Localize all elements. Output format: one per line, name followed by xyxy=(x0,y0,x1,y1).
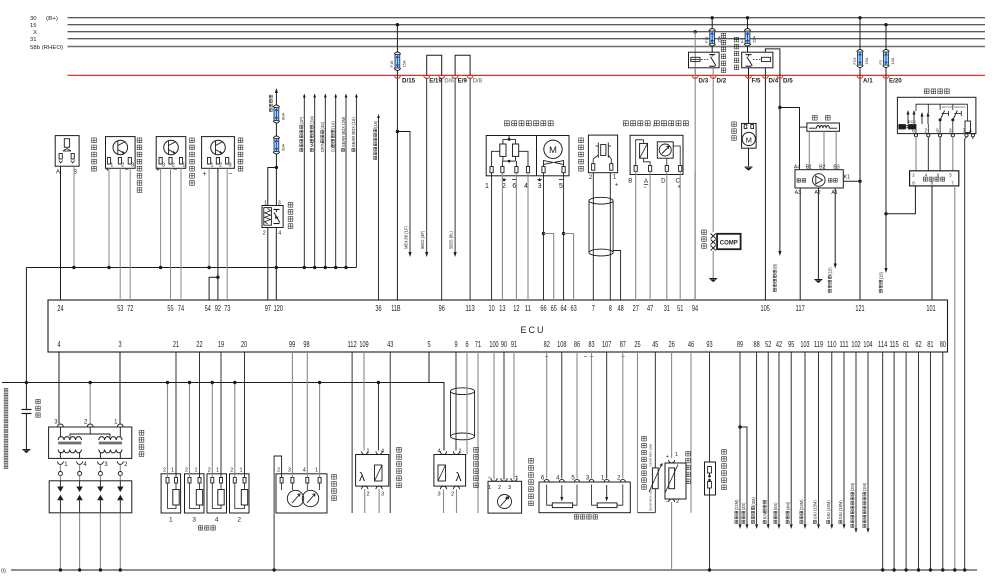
svg-text:1: 1 xyxy=(216,468,219,474)
svg-text:105: 105 xyxy=(761,303,770,313)
svg-text:−: − xyxy=(173,167,177,174)
svg-text:15A: 15A xyxy=(716,36,721,43)
svg-text:1: 1 xyxy=(195,468,198,474)
svg-text:121: 121 xyxy=(855,303,864,313)
svg-text:+: + xyxy=(615,183,619,189)
svg-text:GIU (15M): GIU (15M) xyxy=(813,500,818,520)
svg-text:5: 5 xyxy=(427,339,430,349)
svg-text:2: 2 xyxy=(237,517,241,524)
svg-text:62: 62 xyxy=(915,339,921,349)
svg-text:25: 25 xyxy=(634,339,640,349)
svg-text:9: 9 xyxy=(454,339,457,349)
svg-text:4: 4 xyxy=(524,183,528,190)
svg-text:(B): (B) xyxy=(773,263,778,269)
svg-text:4: 4 xyxy=(381,449,384,455)
svg-text:M: M xyxy=(549,145,557,156)
svg-text:99: 99 xyxy=(289,339,295,349)
svg-text:30: 30 xyxy=(30,16,37,22)
svg-text:3: 3 xyxy=(118,339,121,349)
svg-text:22: 22 xyxy=(196,339,202,349)
svg-text:103: 103 xyxy=(800,339,809,349)
svg-text:A/1: A/1 xyxy=(863,78,873,85)
svg-text:4: 4 xyxy=(437,449,440,455)
svg-text:89: 89 xyxy=(737,339,743,349)
svg-text:4: 4 xyxy=(215,517,219,524)
svg-text:1: 1 xyxy=(315,468,318,474)
svg-text:(6S): (6S) xyxy=(773,502,778,510)
svg-text:15A: 15A xyxy=(752,36,757,43)
svg-text:+: + xyxy=(202,171,206,178)
svg-text:3: 3 xyxy=(437,492,440,498)
svg-text:A: A xyxy=(56,170,60,176)
svg-text:15A: 15A xyxy=(402,60,407,67)
svg-text:19: 19 xyxy=(218,339,224,349)
svg-text:92: 92 xyxy=(215,303,221,313)
svg-text:7: 7 xyxy=(592,303,595,313)
svg-text:114: 114 xyxy=(878,339,887,349)
svg-text:(4M): (4M) xyxy=(785,501,790,510)
svg-text:3: 3 xyxy=(192,517,196,524)
svg-text:5: 5 xyxy=(936,128,939,134)
svg-text:2: 2 xyxy=(263,231,266,237)
svg-text:D/2: D/2 xyxy=(717,78,727,85)
svg-text:3: 3 xyxy=(162,163,165,169)
svg-text:D/4: D/4 xyxy=(769,78,779,85)
svg-text:1: 1 xyxy=(458,449,461,455)
svg-text:82: 82 xyxy=(544,339,550,349)
svg-text:(15): (15) xyxy=(828,267,833,275)
svg-text:3: 3 xyxy=(381,492,384,498)
svg-text:91: 91 xyxy=(511,339,517,349)
svg-text:1: 1 xyxy=(264,200,267,206)
svg-text:−: − xyxy=(643,185,647,191)
svg-text:F/5: F/5 xyxy=(752,78,761,85)
svg-text:104: 104 xyxy=(863,339,872,349)
svg-text:λ: λ xyxy=(359,470,365,484)
svg-text:P/N: P/N xyxy=(762,513,767,520)
svg-text:81: 81 xyxy=(927,339,933,349)
svg-text:E/9: E/9 xyxy=(458,78,468,85)
svg-text:2: 2 xyxy=(277,468,280,474)
svg-text:GIU (18M): GIU (18M) xyxy=(838,500,843,520)
svg-text:31: 31 xyxy=(664,303,670,313)
svg-text:30A: 30A xyxy=(281,144,286,151)
svg-text:COMP: COMP xyxy=(720,241,738,247)
svg-text:98: 98 xyxy=(303,339,309,349)
svg-text:13: 13 xyxy=(499,303,505,313)
svg-text:87: 87 xyxy=(620,339,626,349)
svg-text:(15): (15) xyxy=(373,120,378,128)
svg-text:D/6: D/6 xyxy=(444,78,454,85)
svg-text:F4: F4 xyxy=(739,38,744,43)
svg-text:D/5: D/5 xyxy=(783,78,793,85)
svg-text:1: 1 xyxy=(169,517,173,524)
svg-text:DP/N: DP/N xyxy=(320,142,325,152)
svg-text:27: 27 xyxy=(633,303,639,313)
svg-text:D: D xyxy=(661,178,666,185)
svg-text:8: 8 xyxy=(609,303,612,313)
svg-text:108: 108 xyxy=(557,339,566,349)
svg-text:B1: B1 xyxy=(806,164,812,170)
svg-text:B2: B2 xyxy=(819,164,825,170)
svg-text:1: 1 xyxy=(182,163,185,169)
svg-text:26: 26 xyxy=(669,339,675,349)
svg-text:1: 1 xyxy=(485,183,489,190)
svg-text:113: 113 xyxy=(465,303,474,313)
svg-text:86: 86 xyxy=(574,339,580,349)
svg-text:43: 43 xyxy=(387,339,393,349)
svg-text:83: 83 xyxy=(588,339,594,349)
svg-text:3: 3 xyxy=(538,183,542,190)
svg-text:45: 45 xyxy=(652,339,658,349)
svg-text:42: 42 xyxy=(776,339,782,349)
svg-text:1: 1 xyxy=(210,163,213,169)
svg-text:GEAR BOX (2S): GEAR BOX (2S) xyxy=(649,489,653,511)
svg-text:(1M): (1M) xyxy=(862,482,867,491)
svg-text:93: 93 xyxy=(706,339,712,349)
svg-text:D/3: D/3 xyxy=(699,78,709,85)
svg-text:55: 55 xyxy=(167,303,173,313)
svg-text:3: 3 xyxy=(228,163,231,169)
svg-text:1: 1 xyxy=(240,468,243,474)
svg-text:109: 109 xyxy=(359,339,368,349)
svg-text:2: 2 xyxy=(676,499,679,505)
svg-text:10A: 10A xyxy=(890,57,895,64)
svg-text:4: 4 xyxy=(303,468,306,474)
svg-text:5B22 (4F): 5B22 (4F) xyxy=(420,230,425,249)
svg-text:7: 7 xyxy=(963,128,966,134)
svg-text:6: 6 xyxy=(465,339,468,349)
svg-text:2: 2 xyxy=(208,468,211,474)
svg-text:M: M xyxy=(746,136,752,145)
svg-text:E/20: E/20 xyxy=(889,78,902,85)
svg-text:3: 3 xyxy=(278,200,281,206)
svg-text:72: 72 xyxy=(127,303,133,313)
svg-text:2: 2 xyxy=(366,492,369,498)
svg-text:X: X xyxy=(33,30,37,36)
svg-text:52: 52 xyxy=(765,339,771,349)
svg-text:74: 74 xyxy=(178,303,184,313)
svg-text:15: 15 xyxy=(30,23,37,29)
svg-text:+: + xyxy=(156,167,160,174)
svg-text:1: 1 xyxy=(366,449,369,455)
svg-text:73: 73 xyxy=(224,303,230,313)
svg-text:112: 112 xyxy=(347,339,356,349)
svg-text:−: − xyxy=(584,354,588,361)
svg-text:(23M): (23M) xyxy=(799,499,804,510)
svg-text:61: 61 xyxy=(903,339,909,349)
svg-text:−: − xyxy=(125,167,129,174)
svg-text:(22M): (22M) xyxy=(734,499,739,510)
svg-text:RES/ACC: RES/ACC xyxy=(954,105,966,109)
svg-text:117: 117 xyxy=(796,303,805,313)
svg-text:94: 94 xyxy=(692,303,698,313)
svg-text:(B+): (B+) xyxy=(46,16,58,22)
svg-text:63: 63 xyxy=(571,303,577,313)
svg-text:2: 2 xyxy=(185,468,188,474)
svg-text:10: 10 xyxy=(489,303,495,313)
svg-text:6: 6 xyxy=(912,128,915,134)
svg-text:GEAR BOX (6M): GEAR BOX (6M) xyxy=(649,444,653,467)
svg-text:1: 1 xyxy=(171,468,174,474)
svg-text:46: 46 xyxy=(688,339,694,349)
svg-text:51: 51 xyxy=(677,303,683,313)
svg-text:3: 3 xyxy=(949,128,952,134)
svg-text:−: − xyxy=(488,475,492,481)
svg-text:E/19: E/19 xyxy=(429,78,442,85)
svg-text:B: B xyxy=(628,178,632,185)
svg-text:2: 2 xyxy=(924,128,927,134)
svg-text:2: 2 xyxy=(451,492,454,498)
svg-text:0): 0) xyxy=(1,568,6,574)
svg-text:GEAR BOX (1S): GEAR BOX (1S) xyxy=(351,117,356,148)
svg-text:F11: F11 xyxy=(704,36,709,43)
svg-text:21: 21 xyxy=(173,339,179,349)
svg-text:64: 64 xyxy=(561,303,567,313)
svg-text:6: 6 xyxy=(512,183,516,190)
svg-text:1: 1 xyxy=(675,452,678,458)
svg-text:GIU (16M): GIU (16M) xyxy=(826,500,831,520)
svg-text:(3M): (3M) xyxy=(751,497,756,506)
svg-text:100: 100 xyxy=(489,339,498,349)
svg-text:24: 24 xyxy=(57,303,63,313)
svg-text:97: 97 xyxy=(265,303,271,313)
svg-text:2: 2 xyxy=(498,485,501,491)
svg-text:4: 4 xyxy=(57,339,60,349)
svg-text:(15): (15) xyxy=(879,271,884,279)
svg-text:12: 12 xyxy=(513,303,519,313)
svg-text:−: − xyxy=(228,171,232,178)
svg-text:5: 5 xyxy=(559,183,563,190)
svg-text:20: 20 xyxy=(241,339,247,349)
svg-text:4: 4 xyxy=(278,231,281,237)
svg-text:95: 95 xyxy=(788,339,794,349)
svg-text:47: 47 xyxy=(647,303,653,313)
svg-text:(4S): (4S) xyxy=(320,121,325,129)
svg-text:58b (RHEO): 58b (RHEO) xyxy=(30,45,63,51)
svg-text:(2M): (2M) xyxy=(850,482,855,491)
svg-text:5B25 (8L): 5B25 (8L) xyxy=(449,230,454,249)
svg-text:B3: B3 xyxy=(833,164,839,170)
svg-text:11: 11 xyxy=(525,303,531,313)
svg-text:120: 120 xyxy=(274,303,283,313)
svg-text:+: + xyxy=(666,454,669,460)
svg-text:36: 36 xyxy=(375,303,381,313)
svg-text:66: 66 xyxy=(540,303,546,313)
svg-text:31: 31 xyxy=(30,37,37,43)
svg-text:3: 3 xyxy=(508,485,511,491)
svg-text:ECU: ECU xyxy=(520,325,545,335)
svg-text:(2M): (2M) xyxy=(310,115,315,124)
svg-text:(3S): (3S) xyxy=(741,502,746,510)
svg-text:4: 4 xyxy=(969,128,972,134)
svg-text:96: 96 xyxy=(439,303,445,313)
svg-text:80A: 80A xyxy=(281,113,286,120)
svg-text:101: 101 xyxy=(926,303,935,313)
svg-text:48: 48 xyxy=(618,303,624,313)
svg-text:110: 110 xyxy=(827,339,836,349)
svg-text:102: 102 xyxy=(851,339,860,349)
svg-text:90: 90 xyxy=(501,339,507,349)
svg-text:53: 53 xyxy=(117,303,123,313)
svg-text:F23: F23 xyxy=(852,57,857,65)
svg-text:(1P): (1P) xyxy=(299,116,304,124)
svg-text:A1: A1 xyxy=(831,190,837,196)
svg-text:15A: 15A xyxy=(864,57,869,64)
svg-text:F2: F2 xyxy=(878,59,883,64)
svg-text:GEAR BOX (3M): GEAR BOX (3M) xyxy=(341,116,346,148)
svg-text:71: 71 xyxy=(475,339,481,349)
svg-text:2: 2 xyxy=(230,468,233,474)
svg-text:D/8: D/8 xyxy=(473,78,483,85)
svg-text:107: 107 xyxy=(602,339,611,349)
svg-text:D/15: D/15 xyxy=(402,78,416,85)
svg-text:A2: A2 xyxy=(814,190,820,196)
svg-text:2: 2 xyxy=(163,468,166,474)
svg-text:88: 88 xyxy=(754,339,760,349)
svg-text:54: 54 xyxy=(205,303,211,313)
svg-text:1: 1 xyxy=(488,485,491,491)
svg-text:(1A): (1A) xyxy=(331,121,336,129)
svg-text:115: 115 xyxy=(889,339,898,349)
svg-text:119: 119 xyxy=(814,339,823,349)
svg-text:1: 1 xyxy=(110,163,113,169)
svg-text:11B: 11B xyxy=(391,303,400,313)
svg-text:λ: λ xyxy=(456,470,462,484)
svg-text:SET/CST: SET/CST xyxy=(942,105,953,109)
svg-text:3: 3 xyxy=(288,468,291,474)
svg-text:ME4.88 (1F): ME4.88 (1F) xyxy=(404,226,409,249)
svg-text:111: 111 xyxy=(839,339,848,349)
svg-text:3: 3 xyxy=(131,163,134,169)
svg-text:+: + xyxy=(515,475,519,481)
svg-text:ECU: ECU xyxy=(908,120,916,124)
svg-text:65: 65 xyxy=(551,303,557,313)
svg-text:80: 80 xyxy=(940,339,946,349)
svg-text:F16: F16 xyxy=(389,60,394,68)
svg-text:2: 2 xyxy=(219,163,222,169)
svg-text:−: − xyxy=(665,500,668,506)
svg-text:K1: K1 xyxy=(844,175,850,181)
